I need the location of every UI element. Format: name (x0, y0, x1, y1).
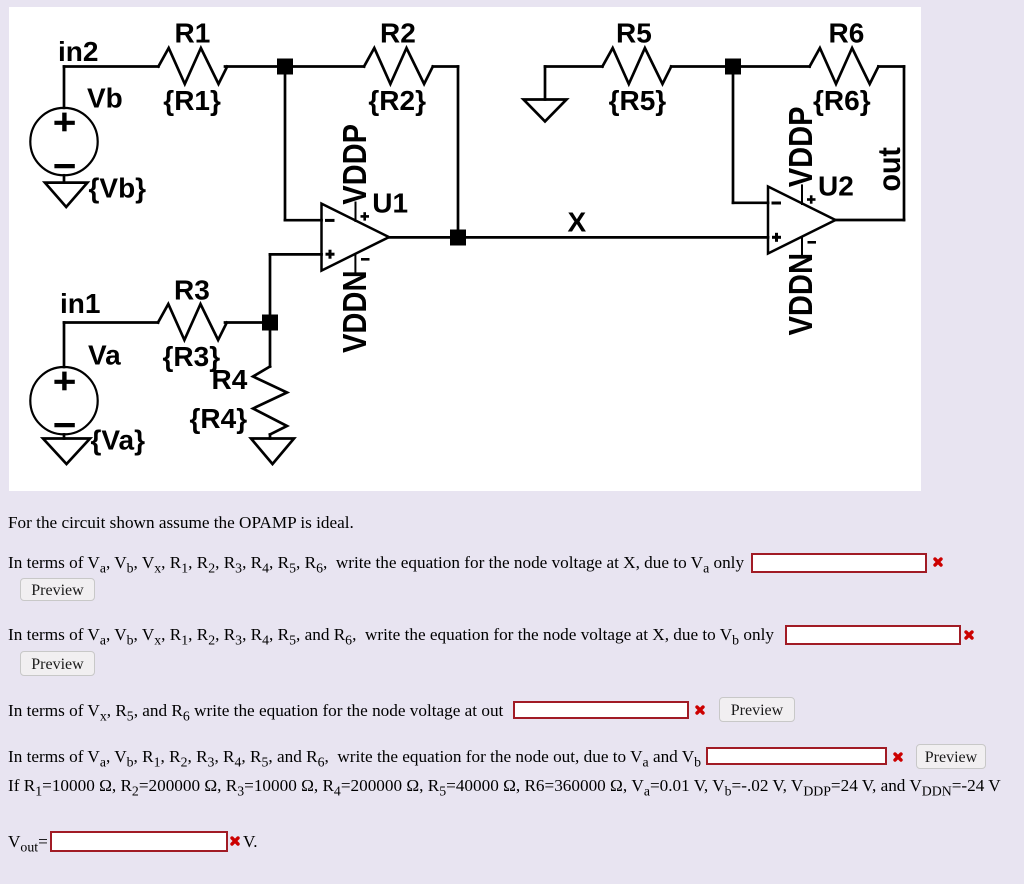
svg-text:VDDP: VDDP (336, 124, 373, 205)
svg-text:R1: R1 (175, 17, 211, 48)
svg-text:{R4}: {R4} (190, 403, 248, 434)
svg-text:{Va}: {Va} (91, 424, 146, 455)
svg-text:Va: Va (88, 340, 121, 371)
svg-text:R5: R5 (616, 18, 652, 49)
svg-text:{R6}: {R6} (813, 85, 871, 116)
svg-text:R2: R2 (380, 17, 416, 48)
svg-text:VDDN: VDDN (336, 271, 373, 353)
svg-text:Vb: Vb (87, 83, 123, 114)
svg-text:{R1}: {R1} (163, 85, 221, 116)
svg-text:out: out (873, 147, 908, 191)
svg-text:{R5}: {R5} (609, 85, 667, 116)
svg-text:R3: R3 (174, 274, 210, 305)
svg-text:{R2}: {R2} (368, 85, 426, 116)
svg-text:U2: U2 (818, 171, 854, 202)
svg-text:in2: in2 (58, 36, 98, 67)
svg-text:R4: R4 (212, 364, 248, 395)
svg-text:U1: U1 (372, 187, 408, 218)
svg-text:VDDN: VDDN (782, 253, 819, 335)
svg-text:in1: in1 (60, 288, 100, 319)
svg-text:{Vb}: {Vb} (89, 173, 147, 204)
svg-text:X: X (568, 207, 587, 238)
svg-text:R6: R6 (829, 18, 865, 49)
svg-text:VDDP: VDDP (782, 106, 819, 187)
